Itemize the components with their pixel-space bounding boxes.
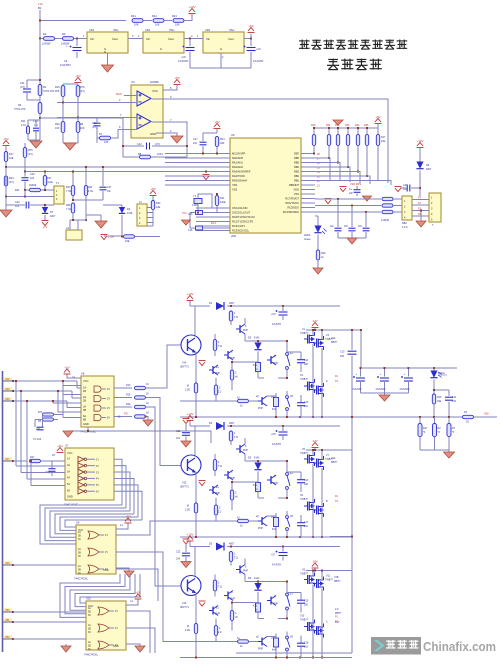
resistor R17 input — [13, 460, 27, 462]
svg-text:RB0/INT: RB0/INT — [289, 183, 299, 187]
transistor PNP lower-left — [209, 606, 218, 616]
svg-text:Vout: Vout — [112, 37, 118, 41]
resistor K2L — [256, 603, 261, 612]
svg-text:3C: 3C — [78, 556, 81, 558]
svg-text:78xx: 78xx — [169, 28, 175, 32]
capacitor filter 1 — [337, 199, 339, 227]
svg-text:LED2: LED2 — [304, 234, 311, 237]
wire — [164, 20, 172, 22]
capacitor C5 — [189, 39, 191, 47]
svg-text:10K: 10K — [104, 141, 109, 144]
svg-text:C: C — [326, 621, 328, 624]
resistor R42 — [153, 19, 164, 23]
svg-text:RA1/AN1: RA1/AN1 — [232, 161, 243, 165]
transistor big NPN V14 — [194, 306, 196, 335]
diode D3 — [216, 543, 224, 551]
power +5V IC4 — [135, 594, 142, 599]
svg-text:VCC: VCC — [152, 89, 158, 93]
wire left net — [6, 196, 54, 198]
resistor R17 bank right — [376, 135, 379, 146]
svg-text:+TV: +TV — [43, 226, 48, 229]
svg-text:2.2E: 2.2E — [185, 509, 190, 512]
svg-text:+C6: +C6 — [256, 48, 261, 51]
resistor base 1 — [229, 431, 232, 441]
svg-text:TO: TO — [335, 380, 338, 383]
nested corner wires MCU right bundle — [315, 158, 330, 180]
svg-text:3DF771: 3DF771 — [180, 486, 190, 489]
wire op-amp A - input pin 2 — [57, 102, 137, 104]
power arrow at emitter — [199, 361, 206, 366]
power +5V — [248, 28, 255, 33]
resistor R1 1E output — [463, 415, 474, 418]
svg-text:4143: 4143 — [254, 577, 260, 580]
svg-text:2A: 2A — [67, 464, 70, 467]
svg-text:U7: U7 — [65, 444, 69, 448]
watermark badge xunwei — [371, 637, 421, 655]
svg-text:X60: X60 — [484, 412, 489, 416]
svg-text:PNP: PNP — [230, 598, 235, 601]
ground divider — [35, 140, 37, 141]
svg-text:1A: 1A — [78, 531, 81, 534]
svg-text:R11: R11 — [21, 120, 26, 123]
svg-text:180: 180 — [304, 483, 309, 486]
wire regulator row input — [40, 38, 43, 40]
svg-text:VCC: VCC — [83, 379, 89, 383]
svg-text:4.7E: 4.7E — [88, 190, 93, 193]
net label X17 — [4, 457, 12, 461]
svg-text:U6: U6 — [231, 133, 235, 137]
resistor v8 — [230, 490, 233, 500]
IC1 output row 1 resistor — [114, 387, 132, 389]
net label X10 — [4, 377, 12, 381]
svg-text:GND: GND — [67, 495, 73, 499]
wire collector rail — [245, 581, 258, 583]
svg-text:1K: 1K — [146, 412, 149, 415]
power 14V mosfet — [312, 563, 319, 568]
ground LED2 — [313, 268, 323, 274]
svg-text:1K: 1K — [146, 402, 149, 405]
svg-text:GND: GND — [150, 132, 156, 136]
wire phase supply row — [190, 546, 210, 548]
ground IC4 left — [65, 644, 67, 646]
IC1 input bus wires — [13, 380, 77, 382]
svg-text:T11: T11 — [218, 345, 223, 348]
svg-text:6B: 6B — [83, 419, 86, 422]
svg-text:X20: X20 — [5, 387, 10, 391]
svg-text:VDD: VDD — [294, 188, 300, 192]
svg-text:RA4/T0CKI: RA4/T0CKI — [232, 174, 245, 178]
svg-text:V14: V14 — [182, 362, 187, 365]
ground VR1 — [107, 53, 109, 65]
power +5V IC3 — [125, 518, 132, 523]
svg-text:VCC: VCC — [67, 451, 73, 455]
wire VR1 out to VR2 in — [128, 38, 143, 40]
svg-text:47uF/5V: 47uF/5V — [272, 323, 281, 326]
wire right rail down to cap row — [360, 330, 362, 368]
power arrow phase extra — [183, 419, 190, 424]
svg-text:TO: TO — [335, 500, 338, 503]
svg-text:04K: 04K — [220, 142, 225, 145]
svg-text:VR2: VR2 — [145, 28, 151, 32]
svg-text:X17: X17 — [5, 457, 10, 461]
net label X50 — [4, 608, 12, 612]
LED A indicator — [433, 368, 435, 371]
wire VR3 out to +5V — [244, 34, 251, 39]
regulator VR2 — [143, 32, 184, 53]
main bus right junctions — [462, 416, 463, 418]
svg-text:VSS: VSS — [294, 192, 299, 196]
power arrow below D7 — [44, 215, 46, 220]
svg-text:(AP): (AP) — [231, 234, 236, 238]
resistor 16E bottom — [274, 638, 279, 647]
svg-text:Green: Green — [304, 238, 312, 241]
microcontroller U6 PIC16F72 — [230, 138, 301, 233]
wire left divider chain — [39, 39, 41, 119]
resistor R31 pull-up — [327, 135, 330, 146]
transistor a2 PNP bottom — [258, 516, 267, 526]
svg-text:R31: R31 — [326, 124, 331, 127]
transistor Q upper PNP — [236, 324, 245, 334]
svg-text:B1: B1 — [38, 6, 42, 10]
svg-text:(C7): (C7) — [155, 143, 160, 146]
power +12V — [189, 9, 196, 14]
svg-text:104: 104 — [176, 558, 181, 561]
svg-text:7.7E: 7.7E — [66, 190, 71, 193]
svg-text:R24: R24 — [88, 186, 93, 189]
wire ecap bottoms — [361, 392, 409, 394]
svg-text:RA5/SS/AN4: RA5/SS/AN4 — [232, 179, 248, 183]
svg-text:PNP: PNP — [230, 357, 235, 360]
svg-text:100E: 100E — [220, 201, 226, 204]
resistor R2 sense — [434, 417, 436, 424]
svg-text:OSC2/CLKOUT: OSC2/CLKOUT — [232, 211, 251, 215]
svg-text:4A: 4A — [67, 477, 70, 480]
electrolytic capacitor C1 — [360, 368, 362, 377]
svg-text:MBT?: MBT? — [334, 580, 341, 583]
svg-text:+12V: +12V — [186, 533, 193, 537]
svg-text:+5V: +5V — [375, 115, 380, 119]
capacitor C4 — [76, 39, 78, 47]
transistor PNP mid — [224, 350, 233, 360]
wire bottom return — [236, 652, 352, 654]
svg-text:RC4/SDI/SDA: RC4/SDI/SDA — [283, 210, 300, 214]
mosfet upper rail — [306, 570, 353, 572]
resistor R20 — [61, 122, 65, 133]
wires upper network — [258, 460, 287, 462]
resistor 2.2 lower — [214, 385, 217, 395]
svg-text:+5V: +5V — [174, 76, 179, 80]
wire — [143, 20, 152, 22]
svg-text:4Y: 4Y — [107, 388, 110, 391]
transistor PNP lower-left — [209, 365, 218, 375]
svg-text:3DF771: 3DF771 — [180, 606, 190, 609]
svg-text:R4: R4 — [18, 103, 22, 107]
svg-text:RB1: RB1 — [294, 179, 300, 183]
power arrow at emitter — [199, 481, 206, 486]
wire to +12V — [184, 14, 192, 21]
svg-text:78xx: 78xx — [113, 28, 119, 32]
wire op-amp A + input — [124, 95, 137, 97]
LED2 indicator — [317, 216, 319, 226]
svg-text:C10: C10 — [340, 351, 345, 354]
wires upper network — [258, 581, 287, 583]
wire sense bottoms — [420, 449, 449, 451]
capacitor C14 bottom — [300, 636, 302, 644]
svg-text:RB2: RB2 — [294, 174, 300, 178]
IC2 outputs to routing channel — [114, 459, 122, 505]
ground sense bank — [448, 450, 450, 452]
resistor 16E bottom — [274, 518, 279, 527]
svg-text:C4: C4 — [64, 59, 68, 63]
MCU right pin wires — [301, 153, 315, 155]
svg-text:R26: R26 — [66, 204, 71, 207]
svg-text:16E: 16E — [125, 240, 130, 243]
svg-text:1B: 1B — [83, 390, 86, 393]
svg-text:FU?: FU? — [335, 621, 340, 624]
svg-text:C22: C22 — [176, 430, 181, 433]
logic IC U7 74HC block — [65, 448, 114, 500]
wire divider to comparator — [40, 117, 123, 119]
svg-text:FU: FU — [335, 375, 338, 378]
wires mosfet lower — [312, 344, 314, 417]
svg-text:MBT?: MBT? — [331, 341, 338, 344]
series resistors 2.2E x3 — [382, 197, 393, 200]
svg-text:4Y: 4Y — [105, 551, 108, 554]
svg-text:K2L: K2L — [253, 605, 258, 608]
svg-text:VSS: VSS — [232, 188, 237, 192]
svg-text:154: 154 — [340, 355, 345, 358]
wire — [63, 83, 78, 85]
svg-text:(K7): (K7) — [9, 181, 14, 184]
svg-text:LEDA: LEDA — [438, 371, 445, 375]
svg-text:RA2/AN2: RA2/AN2 — [232, 165, 243, 169]
svg-text:2Y: 2Y — [96, 465, 99, 468]
svg-text:(K7): (K7) — [28, 153, 33, 156]
wire phase supply row — [190, 305, 210, 307]
svg-text:R14: R14 — [220, 197, 225, 200]
svg-text:7/7K0.17W: 7/7K0.17W — [43, 91, 55, 93]
resistor R24 — [84, 186, 87, 196]
capacitor electrolytic C9 — [282, 306, 284, 311]
svg-text:4.0M: 4.0M — [192, 204, 197, 207]
svg-text:GND: GND — [103, 569, 109, 572]
svg-text:V10: V10 — [300, 615, 305, 618]
ground DP1 — [363, 196, 372, 201]
feedback wire with capacitor C12 — [123, 145, 144, 147]
svg-text:C20: C20 — [15, 201, 20, 204]
svg-text:+C5: +C5 — [181, 56, 186, 59]
wire GND pin 4 — [156, 133, 177, 136]
svg-text:R17: R17 — [381, 136, 386, 139]
svg-text:FU: FU — [335, 616, 338, 619]
IC4 outputs — [126, 611, 150, 653]
svg-text:3Y: 3Y — [107, 398, 110, 401]
resistor 16E bottom — [274, 398, 279, 407]
svg-text:7/NB7?: 7/NB7? — [300, 619, 309, 622]
ground IC1 row4 — [143, 420, 153, 426]
svg-text:(1)1E: (1)1E — [47, 181, 53, 184]
svg-text:R27: R27 — [66, 186, 71, 189]
svg-text:T11: T11 — [218, 586, 223, 589]
op-amp A — [137, 91, 151, 106]
wire right column junction — [330, 536, 352, 538]
resistor R35 pull-up — [365, 135, 368, 146]
resistor R30 right of J4 — [152, 196, 154, 200]
svg-text:GND: GND — [113, 645, 119, 648]
diode D7 — [44, 205, 46, 208]
svg-text:FU: FU — [335, 495, 338, 498]
svg-text:R40: R40 — [126, 403, 131, 406]
svg-text:1A: 1A — [78, 548, 81, 551]
ground left bottom — [5, 205, 7, 210]
svg-text:4007: 4007 — [426, 168, 432, 171]
resistor 1k bottom row — [249, 641, 257, 643]
net label X51 — [4, 618, 12, 622]
junction dots row — [230, 305, 232, 307]
svg-text:R24: R24 — [9, 177, 14, 180]
bus wire phase — [180, 657, 352, 659]
svg-text:C13: C13 — [304, 479, 309, 482]
junction dots on sense lines — [337, 198, 339, 200]
svg-text:1.1K: 1.1K — [21, 124, 26, 127]
svg-text:+5V: +5V — [214, 120, 219, 124]
svg-text:R30: R30 — [156, 202, 161, 205]
svg-text:3B: 3B — [78, 570, 81, 572]
wires DB2 to T connector — [412, 199, 429, 201]
svg-text:R42: R42 — [152, 14, 157, 18]
svg-text:PNP: PNP — [273, 362, 278, 365]
svg-text:Vout: Vout — [168, 37, 174, 41]
svg-text:104: 104 — [30, 177, 35, 180]
IC2 input verticals — [15, 381, 17, 466]
svg-text:C11: C11 — [452, 396, 457, 399]
svg-text:MCLR/VPP: MCLR/VPP — [232, 152, 246, 156]
svg-text:+12V: +12V — [188, 5, 195, 9]
resistor R4 — [38, 103, 42, 114]
resistor R8 feedback — [123, 156, 139, 158]
routing channel 1 nested wires — [40, 505, 122, 544]
resistor R40 under LED2 — [316, 250, 319, 260]
svg-text:10K: 10K — [55, 127, 60, 130]
svg-text:X10: X10 — [5, 377, 10, 381]
power +12V phase 2 — [187, 416, 194, 421]
svg-text:2.2E: 2.2E — [185, 629, 190, 632]
svg-text:RB7: RB7 — [294, 152, 300, 156]
resistor K2L — [256, 363, 261, 372]
bus wire phase — [180, 416, 462, 418]
svg-text:VSS: VSS — [232, 183, 237, 187]
wires to connector DB2 — [393, 198, 402, 200]
logic IC U10 block — [86, 601, 126, 650]
capacitor C11 phase — [300, 472, 302, 480]
svg-text:X30: X30 — [5, 397, 10, 401]
svg-text:RC2/CCP1: RC2/CCP1 — [232, 224, 245, 228]
svg-text:R34: R34 — [355, 124, 360, 127]
svg-text:4007: 4007 — [229, 302, 235, 305]
resistor R76 — [76, 86, 80, 97]
svg-text:(K7): (K7) — [80, 90, 85, 93]
resistor R34 pull-up — [356, 135, 359, 146]
svg-text:4007: 4007 — [50, 215, 56, 218]
svg-text:3B: 3B — [88, 612, 91, 614]
svg-text:Vout: Vout — [228, 37, 234, 41]
wire top rail — [40, 20, 126, 22]
svg-text:10K: 10K — [175, 23, 180, 27]
power 14V mosfet — [312, 443, 319, 448]
svg-text:C18: C18 — [304, 642, 309, 645]
logic IC U8 74HC08 block — [81, 376, 114, 427]
svg-text:4007: 4007 — [229, 422, 235, 425]
svg-text:R3: R3 — [62, 32, 66, 36]
wire — [55, 38, 62, 40]
diode D1 — [216, 302, 224, 310]
svg-text:R19: R19 — [437, 396, 442, 399]
svg-text:5Y: 5Y — [96, 484, 99, 487]
diode D6 supply — [417, 143, 424, 148]
net label X52 — [4, 635, 12, 639]
svg-text:3C: 3C — [78, 539, 81, 541]
resistor R26 — [71, 203, 74, 213]
transistor PNP right — [267, 596, 276, 606]
wire VCC to +5V pin 8 — [163, 85, 177, 90]
svg-text:74HC74CKL: 74HC74CKL — [84, 654, 99, 657]
svg-text:G: G — [220, 47, 222, 51]
svg-text:4Y: 4Y — [115, 627, 118, 630]
svg-text:1E: 1E — [466, 421, 469, 424]
svg-text:2.2E: 2.2E — [185, 389, 190, 392]
svg-text:RA0/AN0: RA0/AN0 — [232, 156, 243, 160]
svg-text:47uF/5V: 47uF/5V — [272, 564, 281, 567]
svg-text:2.2E(5): 2.2E(5) — [381, 219, 389, 222]
svg-text:4148: 4148 — [127, 212, 133, 215]
svg-text:+5V: +5V — [3, 137, 8, 141]
svg-text:3C: 3C — [88, 632, 91, 634]
svg-text:N: N — [104, 50, 106, 54]
svg-text:MBT?: MBT? — [331, 461, 338, 464]
svg-text:1A: 1A — [88, 624, 91, 627]
svg-text:+5V: +5V — [75, 74, 80, 78]
electrolytic cap row rail — [361, 367, 457, 369]
svg-text:3C: 3C — [88, 615, 91, 617]
capacitor filter 2 — [351, 206, 353, 228]
wire top input vertical — [39, 10, 41, 118]
resistor R33 pull-up — [346, 135, 349, 146]
svg-text:RA3/AN3/VREF: RA3/AN3/VREF — [232, 170, 251, 174]
red arrow mid — [325, 199, 332, 204]
svg-text:R10: R10 — [126, 384, 131, 387]
power J4 — [150, 191, 157, 196]
svg-text:78xx: 78xx — [229, 28, 235, 32]
svg-text:10K1: 10K1 — [157, 153, 163, 156]
resistor R27 — [71, 186, 74, 196]
wire — [73, 199, 103, 201]
svg-text:C17: C17 — [304, 521, 309, 524]
wires mosfet lower — [312, 585, 314, 658]
red arrow on RA3 wire — [203, 175, 210, 180]
mosfet upper rail — [306, 449, 353, 451]
voltage ref U2 block — [54, 186, 64, 204]
svg-text:181: 181 — [304, 405, 309, 408]
svg-text:RB3: RB3 — [294, 170, 300, 174]
svg-text:T11: T11 — [234, 316, 239, 319]
svg-text:47uF/63V: 47uF/63V — [400, 389, 410, 391]
resistor R7 sense — [448, 417, 450, 424]
resistor R17 sense — [419, 417, 421, 424]
svg-text:C11: C11 — [20, 81, 25, 85]
bus wire phase — [180, 536, 352, 538]
svg-text:T11: T11 — [234, 557, 239, 560]
IC1 output row 2 resistor — [114, 397, 132, 399]
